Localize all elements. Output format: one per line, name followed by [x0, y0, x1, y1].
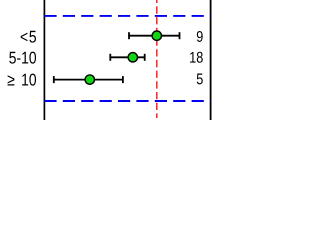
red dashed vertical reference line	[156, 0, 158, 118]
bottom blue dashed gridline	[44, 100, 210, 102]
label "&#8805; 10"	[8, 74, 36, 86]
count 9	[197, 31, 203, 42]
count 5	[197, 74, 203, 85]
row 3 marker	[85, 75, 94, 84]
left spine	[43, 0, 45, 120]
row 2 marker	[128, 53, 137, 62]
label "&lt;5"	[21, 31, 36, 43]
row 1 marker	[152, 31, 161, 40]
row 1 error bar	[129, 32, 180, 39]
top blue dashed gridline	[44, 15, 210, 17]
count 18	[190, 52, 203, 63]
row 3 error bar	[54, 76, 123, 83]
row 2 error bar	[110, 54, 144, 61]
label "5-10"	[9, 52, 36, 64]
right spine	[210, 0, 212, 120]
